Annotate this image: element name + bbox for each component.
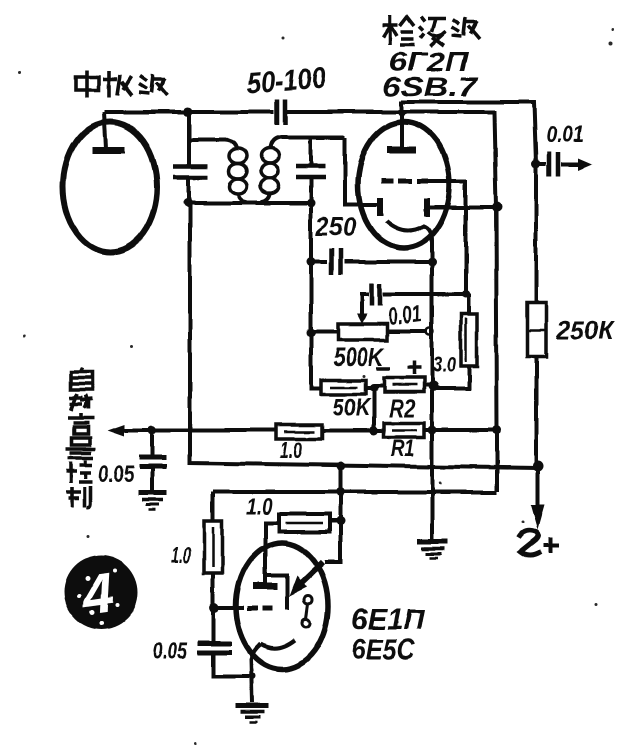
svg-text:0.01: 0.01	[546, 121, 584, 147]
svg-text:6SB.7: 6SB.7	[382, 72, 480, 102]
svg-text:0.05: 0.05	[99, 461, 134, 488]
svg-text:50K: 50K	[333, 394, 372, 422]
svg-text:500K: 500K	[333, 342, 386, 372]
svg-text:3.0: 3.0	[433, 352, 457, 377]
svg-text:1.0: 1.0	[246, 493, 272, 519]
svg-text:1.0: 1.0	[171, 542, 191, 568]
svg-text:50-100: 50-100	[245, 62, 327, 100]
svg-text:250К: 250К	[556, 315, 615, 345]
svg-text:0.05: 0.05	[153, 638, 188, 665]
svg-text:250: 250	[315, 212, 356, 242]
svg-text:0.01: 0.01	[386, 300, 423, 331]
svg-text:6Е5С: 6Е5С	[351, 634, 416, 666]
svg-text:1.0: 1.0	[280, 437, 303, 463]
svg-text:R2: R2	[389, 395, 416, 423]
svg-text:6Е1П: 6Е1П	[351, 604, 425, 636]
svg-text:R1: R1	[391, 435, 415, 462]
